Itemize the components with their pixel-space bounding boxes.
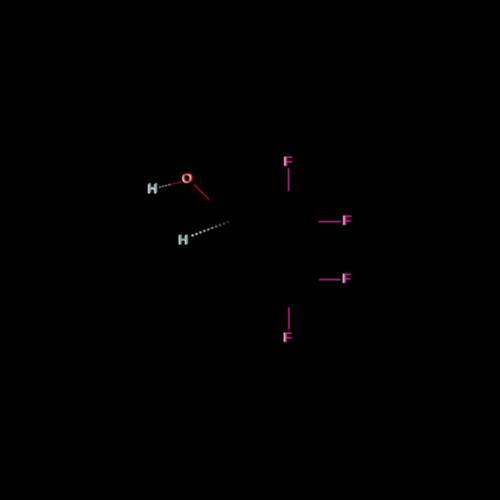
svg-text:F: F xyxy=(343,212,352,228)
svg-text:O: O xyxy=(182,170,193,186)
svg-text:F: F xyxy=(284,153,293,169)
wire hashed stereo bond C1-H xyxy=(192,221,231,236)
svg-text:F: F xyxy=(284,329,293,345)
wire bond O-C1, O half xyxy=(194,185,209,200)
svg-text:H: H xyxy=(148,180,158,196)
atom O (hydroxyl oxygen) xyxy=(181,170,193,187)
wire bond C2-F1, F half xyxy=(288,168,290,191)
atom H (hydroxyl hydrogen) xyxy=(147,180,158,197)
svg-text:F: F xyxy=(343,270,352,286)
atom F4 (fluorine, bottom) xyxy=(283,329,293,345)
svg-text:H: H xyxy=(179,231,189,247)
wire bond H-O (hydroxyl), H half xyxy=(159,185,171,188)
wire bond C3-F3, F half xyxy=(319,279,341,281)
atom H (stereo hydrogen on C1) xyxy=(178,231,189,248)
wire bond C3-F4, F half xyxy=(288,307,290,329)
wire bond H-O (hydroxyl), O half xyxy=(171,182,182,185)
wire bond C2-F2, F half xyxy=(319,221,341,223)
atom F3 (fluorine, lower right) xyxy=(342,270,352,286)
atom F2 (fluorine, upper right) xyxy=(342,212,352,228)
atom F1 (fluorine, top) xyxy=(283,153,293,169)
